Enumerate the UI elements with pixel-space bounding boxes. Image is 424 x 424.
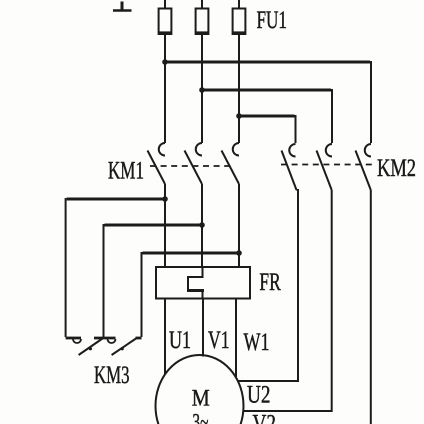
contactor KM2 pole 2 blade <box>317 151 332 191</box>
junction node KM1-1/KM3 branch <box>162 196 168 202</box>
KM3 blade 2 pivot dot <box>121 347 124 350</box>
KM1 mechanical linkage dashed line <box>150 165 232 167</box>
contactor KM1 pole 3 blade <box>222 151 240 185</box>
contactor KM3 terminal 1 foot <box>66 337 81 340</box>
contactor KM2 pole 2 fixed contact hook <box>326 144 332 157</box>
svg-text:U1: U1 <box>169 327 191 354</box>
svg-text:KM2: KM2 <box>377 155 416 182</box>
svg-text:FU1: FU1 <box>257 7 288 34</box>
junction node L1/KM2 branch <box>162 59 168 65</box>
contactor KM1 pole 1 blade <box>148 151 166 185</box>
wire L1 vertical (fuse 1 down to KM1 contact 1) <box>164 0 166 143</box>
wire L3 vertical (fuse 3 down to KM1 contact 3) <box>238 0 240 143</box>
wire branch L1 to KM2 pole 3 <box>165 61 371 143</box>
wire FR output 2 to motor V1 <box>202 299 204 357</box>
svg-text:3~: 3~ <box>192 410 208 424</box>
svg-text:KM3: KM3 <box>94 362 130 389</box>
fuse FU1 element 2 <box>196 9 209 35</box>
KM3 contact hook 1 <box>73 339 81 343</box>
KM3 contact hook 2 <box>108 339 116 343</box>
wire branch L3 to KM2 pole 1 <box>239 115 296 143</box>
wire L2 vertical (fuse 2 down to KM1 contact 2) <box>201 0 203 143</box>
svg-text:M: M <box>192 385 210 410</box>
wire branch to KM3 terminal 1 <box>66 198 165 337</box>
svg-text:U2: U2 <box>247 382 271 409</box>
contactor KM2 pole 3 fixed contact hook <box>365 144 371 157</box>
junction node L2/KM2 branch <box>199 87 205 93</box>
svg-text:FR: FR <box>259 269 281 296</box>
motor M circle <box>156 355 244 424</box>
KM3 blade 1 pivot dot <box>89 347 92 350</box>
contactor KM3 terminal 2 foot <box>94 337 116 340</box>
thermal relay FR box <box>156 267 250 299</box>
svg-text:V2: V2 <box>253 410 277 424</box>
contactor KM2 pole 3 blade <box>356 151 371 191</box>
FR heater element symbol <box>188 267 203 291</box>
wire KM1 pole 1 bottom to FR input 1 <box>164 184 166 267</box>
contactor KM2 pole 1 blade <box>282 151 297 191</box>
wire KM1 pole 2 bottom to FR input 2 <box>201 184 203 267</box>
fuse FU1 element 1 <box>159 9 172 35</box>
wire branch to KM3 terminal 3 <box>142 252 240 337</box>
KM2 mechanical linkage dashed line <box>281 164 372 166</box>
disconnect symbol stub (top-left) <box>113 2 132 11</box>
wire KM1 pole 3 bottom to FR input 3 <box>238 184 240 267</box>
contactor KM1 pole 2 fixed contact hook <box>196 143 202 156</box>
KM3 blade 2 <box>112 339 136 356</box>
KM3 blade 1 <box>79 339 103 356</box>
fuse FU1 element 3 <box>233 9 246 35</box>
contactor KM1 pole 2 blade <box>185 151 203 185</box>
wire FR output 3 to motor W1 <box>235 299 237 378</box>
svg-text:V1: V1 <box>208 327 230 354</box>
junction node KM1-3/KM3 branch <box>236 250 242 256</box>
wire branch L2 to KM2 pole 2 <box>202 89 332 143</box>
wire KM2 pole 1 bottom to motor U2 <box>239 190 299 381</box>
contactor KM1 pole 1 fixed contact hook <box>159 143 165 156</box>
contactor KM2 pole 1 fixed contact hook <box>289 144 295 157</box>
contactor KM1 pole 3 fixed contact hook <box>233 143 239 156</box>
junction node KM1-2/KM3 branch <box>199 222 205 228</box>
wire branch to KM3 terminal 2 <box>104 224 203 337</box>
junction node L3/KM2 branch <box>236 113 242 119</box>
wire FR output 1 to motor U1 <box>164 299 166 375</box>
contactor KM3 terminal 3 foot <box>136 337 142 340</box>
svg-text:KM1: KM1 <box>108 158 144 185</box>
wire KM2 pole 3 bottom to motor W2 (runs off bottom edge) <box>370 190 372 424</box>
wire KM2 pole 2 bottom to motor V2 <box>244 190 332 411</box>
svg-text:W1: W1 <box>244 329 270 356</box>
